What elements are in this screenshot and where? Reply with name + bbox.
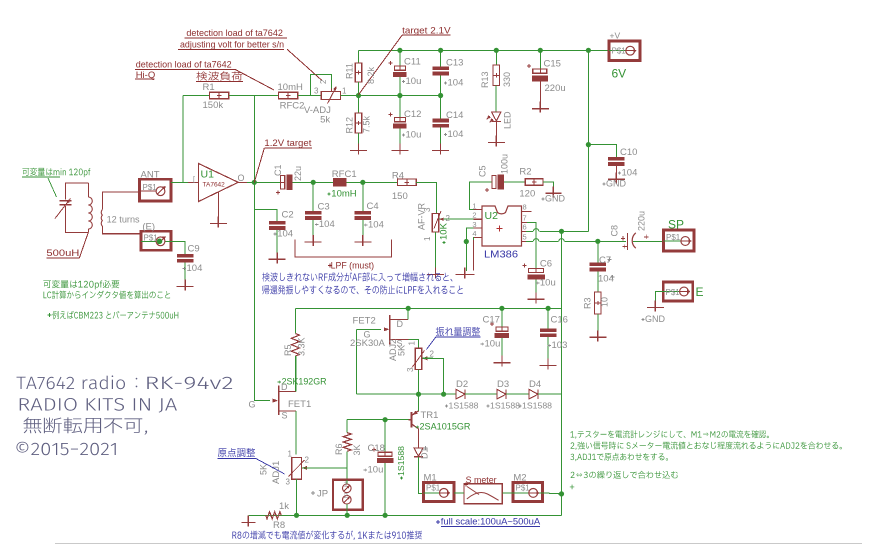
svg-text:RFC1: RFC1 xyxy=(332,169,357,180)
svg-text:2SK30A: 2SK30A xyxy=(350,338,386,349)
svg-text:full scale:100uA~500uA: full scale:100uA~500uA xyxy=(441,517,541,528)
svg-text:1: 1 xyxy=(288,450,293,459)
svg-text:104: 104 xyxy=(598,274,614,285)
svg-text:5k: 5k xyxy=(320,115,330,126)
svg-text:JP: JP xyxy=(317,489,328,500)
svg-text:C16: C16 xyxy=(551,315,568,326)
svg-text:3: 3 xyxy=(314,87,319,96)
svg-text:U1: U1 xyxy=(201,169,215,181)
svg-text:2: 2 xyxy=(446,214,451,223)
svg-text:Hi-Q: Hi-Q xyxy=(136,70,156,81)
svg-text:1S1588: 1S1588 xyxy=(490,401,520,411)
svg-text:1: 1 xyxy=(423,236,432,241)
svg-text:P$1: P$1 xyxy=(516,484,531,493)
svg-text:1: 1 xyxy=(342,87,347,96)
svg-text:120: 120 xyxy=(519,189,535,200)
svg-text:3: 3 xyxy=(406,367,415,372)
svg-text:220u: 220u xyxy=(545,83,566,94)
svg-text:R2: R2 xyxy=(519,167,531,178)
svg-text:R3: R3 xyxy=(583,297,593,309)
svg-text:S: S xyxy=(282,411,288,421)
svg-text:1S1588: 1S1588 xyxy=(522,401,552,411)
svg-text:E: E xyxy=(696,285,704,299)
svg-text:R11: R11 xyxy=(345,63,355,79)
svg-text:1: 1 xyxy=(408,341,417,346)
svg-text:10u: 10u xyxy=(368,465,384,476)
svg-text:adjusting volt for better s/n: adjusting volt for better s/n xyxy=(180,40,284,51)
svg-text:5K: 5K xyxy=(259,464,269,475)
svg-text:10K: 10K xyxy=(439,222,450,240)
svg-text:SP: SP xyxy=(668,218,684,232)
svg-text:2: 2 xyxy=(344,491,348,500)
svg-text:12 turns: 12 turns xyxy=(107,215,140,226)
svg-text:100u: 100u xyxy=(500,154,510,174)
svg-text:R4: R4 xyxy=(392,171,404,182)
svg-text:C4: C4 xyxy=(367,201,379,212)
svg-text:2SK192GR: 2SK192GR xyxy=(282,377,327,388)
svg-text:LM386: LM386 xyxy=(484,250,518,261)
svg-text:P$1: P$1 xyxy=(666,233,681,242)
svg-text:C5: C5 xyxy=(478,165,488,177)
svg-text:220u: 220u xyxy=(637,211,647,231)
svg-text:GND: GND xyxy=(545,194,566,204)
svg-text:C8: C8 xyxy=(610,225,620,237)
svg-text:7: 7 xyxy=(523,213,527,222)
svg-text:104: 104 xyxy=(448,78,464,89)
svg-text:C11: C11 xyxy=(404,57,421,68)
svg-text:104: 104 xyxy=(277,229,293,240)
svg-text:M2: M2 xyxy=(513,473,526,484)
svg-text:C10: C10 xyxy=(620,147,637,158)
svg-text:RFC2: RFC2 xyxy=(280,101,305,112)
svg-text:2: 2 xyxy=(305,456,310,465)
svg-text:22u: 22u xyxy=(293,166,303,181)
svg-text:1S1588: 1S1588 xyxy=(449,401,479,411)
svg-text:1: 1 xyxy=(344,480,348,489)
svg-text:R13: R13 xyxy=(480,71,490,88)
svg-text:8.2k: 8.2k xyxy=(366,66,376,84)
svg-text:P$1: P$1 xyxy=(612,47,627,56)
svg-text:U2: U2 xyxy=(485,210,499,222)
svg-text:1.2V target: 1.2V target xyxy=(264,138,311,149)
svg-text:4: 4 xyxy=(472,229,476,238)
svg-text:103: 103 xyxy=(552,340,568,351)
svg-text:330: 330 xyxy=(502,72,512,87)
svg-text:3.3K: 3.3K xyxy=(297,337,307,356)
svg-text:10u: 10u xyxy=(485,339,501,350)
svg-text:+V: +V xyxy=(610,31,621,41)
svg-text:2: 2 xyxy=(430,350,435,359)
svg-text:1k: 1k xyxy=(279,501,289,512)
svg-text:C1: C1 xyxy=(273,164,283,176)
svg-text:C13: C13 xyxy=(446,58,463,69)
svg-text:5: 5 xyxy=(523,232,527,241)
svg-text:C17: C17 xyxy=(483,315,500,326)
svg-text:TR1: TR1 xyxy=(421,410,439,421)
svg-text:7.5k: 7.5k xyxy=(362,115,372,133)
svg-text:10mH: 10mH xyxy=(278,82,303,93)
svg-text:1S1588: 1S1588 xyxy=(396,446,406,476)
svg-text:150k: 150k xyxy=(203,100,224,111)
svg-text:104: 104 xyxy=(319,219,335,230)
svg-text:6V: 6V xyxy=(612,67,627,81)
svg-text:C9: C9 xyxy=(188,244,200,255)
svg-text:P$1: P$1 xyxy=(426,484,441,493)
svg-text:10u: 10u xyxy=(406,130,422,141)
svg-text:5K: 5K xyxy=(397,345,407,356)
svg-text:104: 104 xyxy=(448,129,464,140)
svg-text:10u: 10u xyxy=(406,76,422,87)
svg-text:1: 1 xyxy=(472,202,476,211)
svg-text:D2: D2 xyxy=(456,379,468,390)
svg-text:TA7642: TA7642 xyxy=(203,182,226,189)
svg-text:detection load of ta7642: detection load of ta7642 xyxy=(186,28,283,39)
svg-text:P$1: P$1 xyxy=(666,288,681,297)
svg-text:6: 6 xyxy=(523,222,527,231)
svg-text:3K: 3K xyxy=(352,444,362,455)
svg-text:500uH: 500uH xyxy=(46,248,79,259)
svg-text:104: 104 xyxy=(368,220,384,231)
svg-text:[: [ xyxy=(193,177,195,184)
svg-text:GND: GND xyxy=(606,179,627,189)
svg-text:D: D xyxy=(281,382,288,392)
svg-text:D1: D1 xyxy=(420,447,430,459)
svg-text:2: 2 xyxy=(319,79,328,84)
svg-text:(E): (E) xyxy=(142,222,155,233)
svg-text:10mH: 10mH xyxy=(331,189,356,200)
svg-text:LED: LED xyxy=(503,111,513,129)
svg-text:ADJ1: ADJ1 xyxy=(271,461,282,484)
svg-text:S meter: S meter xyxy=(466,475,497,486)
svg-text:3: 3 xyxy=(286,478,291,487)
svg-text:C2: C2 xyxy=(282,210,294,221)
svg-text:150: 150 xyxy=(392,191,408,202)
svg-text:R12: R12 xyxy=(345,117,355,134)
svg-text:G: G xyxy=(249,400,256,410)
svg-text:M1: M1 xyxy=(424,473,437,484)
svg-text:LPF (must): LPF (must) xyxy=(331,261,375,272)
svg-text:C14: C14 xyxy=(446,110,463,121)
svg-text:G: G xyxy=(364,330,371,340)
svg-text:P$1: P$1 xyxy=(143,183,158,192)
svg-text:R6: R6 xyxy=(334,443,344,455)
svg-text:8: 8 xyxy=(523,203,527,212)
svg-text:3: 3 xyxy=(472,220,476,229)
svg-text:target 2.1V: target 2.1V xyxy=(402,26,451,37)
svg-text:R5: R5 xyxy=(283,344,293,356)
svg-text:FET1: FET1 xyxy=(288,399,311,410)
svg-text:C18: C18 xyxy=(368,443,385,454)
svg-text:C3: C3 xyxy=(318,202,330,213)
svg-text:D3: D3 xyxy=(497,379,509,390)
svg-text:C12: C12 xyxy=(404,109,421,120)
svg-text:AF-VR: AF-VR xyxy=(417,202,427,230)
svg-text:2: 2 xyxy=(472,211,476,220)
svg-text:104: 104 xyxy=(187,263,203,274)
svg-text:R1: R1 xyxy=(203,82,215,93)
svg-text:C6: C6 xyxy=(540,259,552,270)
svg-text:10u: 10u xyxy=(540,278,556,289)
svg-text:2SA1015GR: 2SA1015GR xyxy=(420,422,471,433)
svg-text:O: O xyxy=(238,173,245,183)
svg-text:10: 10 xyxy=(600,297,610,307)
svg-text:R8: R8 xyxy=(273,520,285,531)
svg-text:104: 104 xyxy=(622,168,638,179)
svg-text:GND: GND xyxy=(645,314,666,324)
svg-text:ANT: ANT xyxy=(141,170,160,181)
svg-text:D: D xyxy=(397,319,404,329)
svg-text:D4: D4 xyxy=(529,379,541,390)
svg-text:P$1: P$1 xyxy=(144,234,159,243)
svg-text:FET2: FET2 xyxy=(353,316,376,327)
svg-text:C15: C15 xyxy=(544,59,561,70)
